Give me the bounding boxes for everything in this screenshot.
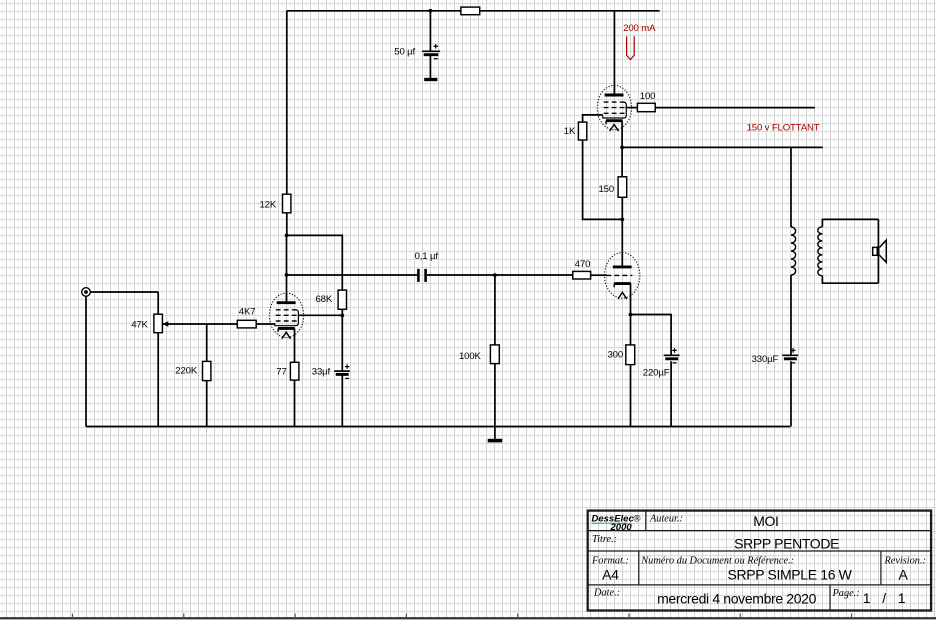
ground (50uF) <box>424 78 437 81</box>
junction node dots <box>429 9 433 13</box>
svg-text:Date.:: Date.: <box>593 587 620 598</box>
speaker LS1 <box>873 247 879 255</box>
svg-text:Numéro du Document ou Référenc: Numéro du Document ou Référence.: <box>640 555 794 566</box>
wire V3 cathode through 300 <box>630 284 632 427</box>
wire input jack to 47K column <box>90 291 158 293</box>
svg-text:33µf: 33µf <box>312 367 331 378</box>
capacitor 50uF <box>422 50 440 52</box>
wire signal: V1 plate to 0.1uF <box>287 274 419 276</box>
resistor 100K <box>490 345 499 364</box>
resistor 68K <box>338 290 346 309</box>
svg-text:200 mA: 200 mA <box>623 23 656 34</box>
wire ground stub <box>494 427 496 439</box>
wire 33uF bottom to bus <box>341 376 343 427</box>
wire V1 cathode through 77 <box>294 328 296 426</box>
wire 12K feed from rail down to plate node <box>286 11 288 236</box>
svg-text:®: ® <box>634 514 641 525</box>
potentiometer 47K <box>154 314 163 333</box>
svg-text:mercredi 4 novembre 2020: mercredi 4 novembre 2020 <box>657 591 816 607</box>
wire V1 screen to node C <box>298 314 343 316</box>
wire 330uF bottom to bus end <box>790 361 792 426</box>
wire secondary top loop <box>822 219 878 226</box>
resistor 4K7 <box>237 320 256 328</box>
svg-text:47K: 47K <box>131 320 148 331</box>
svg-text:12K: 12K <box>260 199 277 210</box>
wire V2 screen to 100 resistor <box>626 107 638 109</box>
svg-text:1: 1 <box>898 590 906 606</box>
resistor 300 <box>626 345 635 365</box>
capacitor 220uF <box>664 354 680 356</box>
resistor 1K <box>578 122 586 140</box>
svg-text:Page.:: Page.: <box>832 588 860 599</box>
resistor 470 <box>573 271 591 279</box>
frame zone ticks <box>73 614 852 619</box>
wire primary top lead <box>790 147 792 227</box>
wire cathode node jog to 220uF <box>631 315 672 355</box>
ground (main) <box>488 439 503 443</box>
resistor (top, unlabeled) <box>461 7 480 15</box>
wire 470 to V3 grid <box>591 274 607 276</box>
svg-text:300: 300 <box>608 350 624 361</box>
wire floating output bottom 150v <box>622 146 823 148</box>
svg-text:SRPP PENTODE: SRPP PENTODE <box>734 535 839 551</box>
svg-text:/: / <box>882 590 886 606</box>
svg-text:SRPP SIMPLE 16 W: SRPP SIMPLE 16 W <box>727 567 852 583</box>
wire 100 resistor to floating output top <box>655 107 815 109</box>
svg-text:0,1 µf: 0,1 µf <box>415 251 439 262</box>
tube V2 pentode <box>597 85 631 131</box>
wire V1 plate lead <box>286 235 288 303</box>
wire 100K column <box>494 275 496 427</box>
wire plate node jog to 68K top <box>287 235 343 290</box>
wire 220uF bottom to bus <box>670 361 672 426</box>
svg-text:50 µf: 50 µf <box>394 46 415 57</box>
svg-text:2000: 2000 <box>610 522 633 533</box>
resistor 12K <box>283 194 291 213</box>
title block frame <box>588 511 931 611</box>
wire 50uF to ground <box>429 56 431 78</box>
svg-text:Format.:: Format.: <box>591 555 629 566</box>
svg-text:4K7: 4K7 <box>239 307 256 318</box>
svg-text:Titre.:: Titre.: <box>592 534 617 545</box>
wire speaker loop right <box>877 219 879 283</box>
capacitor 330uF <box>782 354 798 356</box>
svg-text:68K: 68K <box>316 294 333 305</box>
wire pot wiper to 4K7 <box>163 323 238 325</box>
transformer T1 secondary winding <box>818 227 823 276</box>
wire V2 grid to 1K <box>583 115 603 122</box>
wire top B+ rail <box>287 10 660 12</box>
transformer T1 primary winding <box>791 227 796 275</box>
svg-text:330µF: 330µF <box>752 354 779 365</box>
wire V2 cathode down through 150 column <box>621 121 623 177</box>
svg-text:220K: 220K <box>175 365 198 376</box>
svg-text:150: 150 <box>599 184 615 195</box>
svg-text:100K: 100K <box>459 351 482 362</box>
resistor 100 <box>637 103 655 111</box>
svg-text:150 v FLOTTANT: 150 v FLOTTANT <box>747 122 820 133</box>
wire 150 bottom to node B to V3 plate <box>621 198 623 267</box>
wire 50uF tap from rail <box>429 11 431 52</box>
svg-text:A4: A4 <box>602 567 619 583</box>
svg-text:470: 470 <box>575 259 591 270</box>
capacitor 0,1uF <box>417 269 420 282</box>
input jack connector <box>82 288 91 297</box>
wire signal: 0.1uF to 470 <box>427 274 573 276</box>
wire input shield down <box>85 296 87 426</box>
wire 4K7 to V1 grid <box>256 323 275 325</box>
wire 47K column <box>157 292 159 427</box>
wire 68K bottom to screen node <box>341 309 343 371</box>
svg-text:Revision.:: Revision.: <box>884 555 926 566</box>
wire 220K column <box>206 324 208 427</box>
svg-text:100: 100 <box>640 91 656 102</box>
svg-text:A: A <box>899 567 909 583</box>
svg-text:1K: 1K <box>564 126 576 137</box>
svg-text:MOI: MOI <box>753 513 778 529</box>
wire tube V2 plate feed <box>613 11 615 95</box>
wire primary bottom lead <box>790 275 792 355</box>
tube V1 pentode <box>269 293 303 339</box>
sheet frame bottom line <box>0 617 936 619</box>
wire 1K bottom jog to node B <box>583 140 623 220</box>
tube V3 triode <box>605 253 640 299</box>
svg-text:220µF: 220µF <box>643 367 670 378</box>
svg-text:Auteur.:: Auteur.: <box>649 514 683 525</box>
svg-text:77: 77 <box>276 367 286 378</box>
svg-text:1: 1 <box>863 590 871 606</box>
capacitor 33uF <box>334 370 350 372</box>
resistor 150 <box>618 177 627 198</box>
wire ground bus <box>86 426 790 428</box>
resistor 77 <box>290 362 299 380</box>
resistor 220K <box>203 361 211 380</box>
wire secondary bottom loop <box>822 276 878 284</box>
